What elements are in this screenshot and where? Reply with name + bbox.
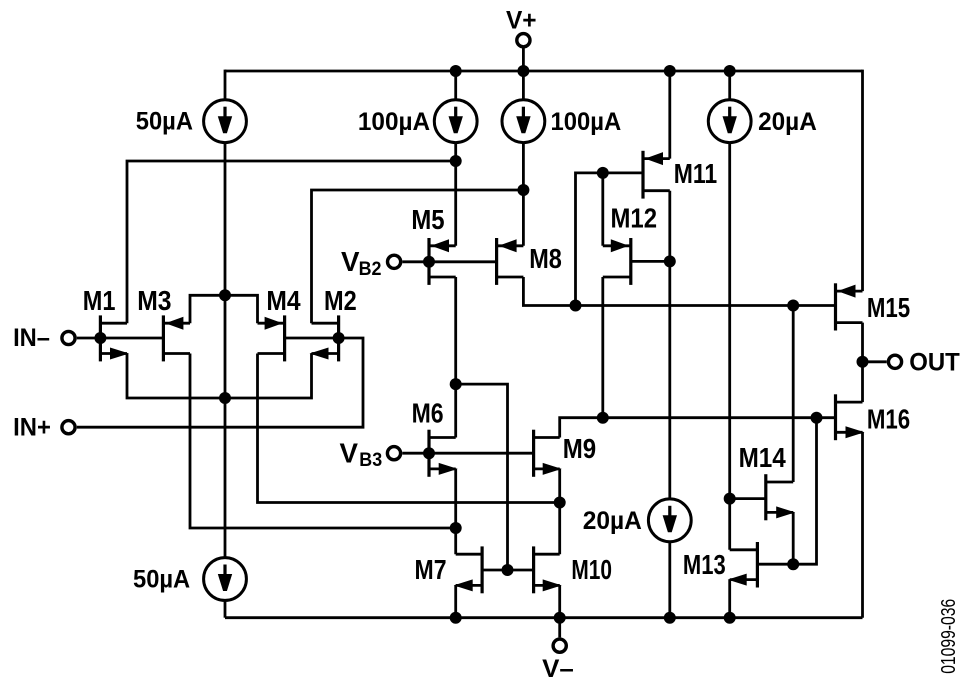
- node M9-source / M4-source junction: [554, 497, 566, 509]
- wire M11 gate net: [576, 173, 644, 306]
- wire M12 drain up to M11 gate: [601, 173, 604, 246]
- terminal V+: [517, 34, 530, 47]
- label VB2: [341, 246, 382, 280]
- wire M4 drain to tail node: [225, 295, 258, 323]
- node tail / source-rail junction: [219, 392, 231, 404]
- label IN+: [13, 413, 51, 441]
- svg-text:M5: M5: [411, 204, 444, 235]
- wire M12 source down to M9 drain net: [601, 277, 604, 418]
- svg-text:M2: M2: [324, 285, 357, 316]
- label 100uA (I3): [551, 108, 622, 136]
- node M1 gate junction: [94, 332, 106, 344]
- wire M15 source to OUT node: [861, 323, 864, 362]
- svg-text:M10: M10: [571, 554, 612, 585]
- wire V+ to 100uA I3 top: [522, 71, 525, 100]
- svg-text:M13: M13: [683, 549, 726, 580]
- wire I2 bottom to M5 drain: [454, 143, 457, 246]
- node M7/M10 gate junction: [502, 564, 514, 576]
- svg-text:V+: V+: [506, 6, 537, 34]
- wire M6 source to M7 drain: [454, 469, 457, 554]
- node M5 gate junction: [423, 256, 435, 268]
- wire M13 source to V- rail: [728, 580, 731, 618]
- wire rail to M11 drain: [668, 71, 671, 159]
- label M11: [674, 158, 717, 189]
- label M14: [739, 442, 787, 473]
- svg-text:V: V: [341, 246, 360, 277]
- transistor M8: [497, 238, 524, 285]
- wire M10 source to V- rail: [558, 585, 561, 617]
- node rail/20uA junction: [724, 65, 736, 77]
- wire rail right end to M15 drain: [861, 70, 864, 292]
- svg-text:M6: M6: [412, 398, 444, 429]
- wire tail down to 50uA I5: [224, 398, 227, 558]
- svg-text:OUT: OUT: [909, 349, 960, 377]
- wire M1/M2 source rail: [127, 354, 312, 399]
- node second-stage / M14-drain junction: [787, 300, 799, 312]
- node rail/100uA-1 junction: [450, 65, 462, 77]
- wire M14 source down to M13 gate: [792, 512, 795, 564]
- svg-text:IN+: IN+: [13, 413, 51, 441]
- wire rail to 100uA I2 top: [454, 71, 457, 100]
- transistor M5: [429, 238, 456, 285]
- svg-text:M11: M11: [674, 158, 717, 189]
- label 100uA (I2): [358, 108, 430, 136]
- label M1: [83, 285, 116, 316]
- node M6 gate junction: [423, 447, 435, 459]
- wire M7 source to V- rail: [454, 585, 457, 617]
- label M8: [529, 243, 562, 274]
- node second-stage / M11-gate-branch junction: [570, 300, 582, 312]
- wire OUT node to M16 drain: [861, 362, 864, 402]
- label M7: [415, 554, 447, 585]
- wire I3 bottom to M8 drain: [522, 143, 525, 246]
- wire M13 gate net: [757, 418, 816, 565]
- label M5: [411, 204, 444, 235]
- terminal OUT: [888, 355, 901, 368]
- svg-text:20µA: 20µA: [583, 507, 642, 535]
- current source I2 100uA: [434, 100, 477, 143]
- node V-rail / M10 / V- junction: [554, 612, 566, 624]
- node M2 gate junction: [333, 332, 345, 344]
- current source I3 100uA: [502, 100, 545, 143]
- wire M9 drain up to second stage: [560, 418, 836, 438]
- label M4: [266, 285, 301, 316]
- label M6: [412, 398, 444, 429]
- wire M5 source to M6 drain: [454, 277, 457, 438]
- transistor M9: [534, 430, 562, 477]
- label M13: [683, 549, 726, 580]
- wire M8 source to second-stage node: [523, 277, 835, 306]
- svg-text:M9: M9: [563, 433, 596, 464]
- terminal VB2: [388, 255, 401, 268]
- label VB3: [340, 437, 383, 471]
- label M2: [324, 285, 357, 316]
- wire M14 gate: [730, 497, 766, 500]
- transistor M15: [836, 283, 863, 330]
- transistor M10: [534, 546, 562, 593]
- svg-text:M3: M3: [137, 285, 171, 316]
- transistor M12: [603, 238, 631, 285]
- label 50uA (I1): [136, 108, 193, 136]
- node M11-gate / M12-drain junction: [597, 167, 609, 179]
- terminal V-: [553, 639, 566, 652]
- node M1-drain-net / I2 junction: [450, 155, 462, 167]
- wire M3 source down: [190, 354, 456, 529]
- node V-rail / M13 junction: [724, 612, 736, 624]
- wire V- terminal stub: [558, 618, 561, 638]
- node rail/M11 junction: [664, 65, 676, 77]
- transistor M2: [310, 315, 339, 361]
- svg-text:100µA: 100µA: [551, 108, 622, 136]
- node M13-gate / M14-source junction: [787, 558, 799, 570]
- wire M11-source net to 20uA I6: [668, 261, 671, 499]
- terminal VB3: [387, 447, 400, 460]
- svg-text:M16: M16: [867, 404, 910, 435]
- node 20uA / M14-gate junction: [724, 493, 736, 505]
- transistor M16: [836, 394, 865, 440]
- node OUT junction: [857, 356, 869, 368]
- wire I6 bottom to V- rail: [668, 542, 671, 618]
- wire M9 source to M10 drain: [558, 469, 561, 554]
- label V+: [506, 6, 537, 34]
- current source I6 20uA: [648, 499, 691, 542]
- svg-text:20µA: 20µA: [758, 108, 817, 136]
- wire tail node to source rail: [224, 295, 227, 398]
- current source I5 50uA: [204, 558, 247, 601]
- wire M11 source down: [668, 191, 671, 262]
- node M9-drain / M13-gate junction: [811, 412, 823, 424]
- svg-text:B3: B3: [359, 450, 382, 471]
- wire I1 bottom to tail node: [224, 143, 227, 296]
- wire M14 drain up to M15 gate net: [792, 306, 795, 483]
- svg-text:100µA: 100µA: [358, 108, 430, 136]
- wire V+ stub to rail: [522, 47, 525, 71]
- current source I4 20uA: [708, 100, 751, 143]
- transistor M1: [100, 315, 129, 361]
- svg-text:V: V: [340, 437, 359, 468]
- svg-text:M7: M7: [415, 554, 447, 585]
- node M11-source / M12-gate junction: [664, 255, 676, 267]
- label V-: [542, 655, 574, 683]
- svg-text:M12: M12: [611, 203, 658, 234]
- wire OUT node to terminal: [863, 360, 887, 363]
- svg-text:M14: M14: [739, 442, 787, 473]
- label M15: [867, 292, 910, 323]
- node M2-drain-net / I3 junction: [517, 184, 529, 196]
- node V-rail / M7 junction: [450, 612, 462, 624]
- svg-text:B2: B2: [359, 259, 382, 280]
- node M6-source / M3-source junction: [450, 522, 462, 534]
- label M9: [563, 433, 596, 464]
- svg-text:M1: M1: [83, 285, 116, 316]
- transistor M13: [728, 542, 758, 588]
- label 20uA (I4): [758, 108, 817, 136]
- wire I5 bottom to V- rail: [224, 600, 227, 617]
- svg-text:V–: V–: [542, 655, 574, 683]
- transistor M4: [258, 315, 285, 361]
- node M3/M4 drain junction: [219, 289, 231, 301]
- transistor M14: [766, 474, 795, 520]
- svg-text:IN–: IN–: [13, 324, 50, 352]
- wire M4 source down: [258, 354, 560, 503]
- label M16: [867, 404, 910, 435]
- wire VB2 to M5/M8 gates: [402, 260, 496, 263]
- label OUT: [909, 349, 960, 377]
- transistor M6: [429, 430, 458, 477]
- label IN-: [13, 324, 50, 352]
- wire M16 source to V- rail: [861, 432, 864, 617]
- transistor M7: [454, 546, 482, 593]
- terminal IN+: [62, 421, 75, 434]
- label M12: [611, 203, 658, 234]
- node rail/V+ junction: [517, 65, 529, 77]
- node M5-source / cascode-gate junction: [450, 378, 462, 390]
- label M3: [137, 285, 171, 316]
- svg-text:M15: M15: [867, 292, 910, 323]
- svg-text:50µA: 50µA: [136, 108, 193, 136]
- terminal IN-: [62, 331, 75, 344]
- wire VB3 to M6/M9 gates: [402, 452, 533, 455]
- wire rail down to 50uA source I1: [224, 70, 227, 100]
- wire IN- to M1/M3 gates: [77, 337, 164, 340]
- svg-text:M4: M4: [266, 285, 301, 316]
- wire cascode gate branch: [456, 384, 508, 570]
- node M9-drain / M12-source junction: [597, 412, 609, 424]
- label 50uA (I5): [133, 566, 190, 594]
- wire V- bottom rail: [225, 616, 863, 619]
- svg-text:01099-036: 01099-036: [938, 599, 960, 674]
- wire M3 drain to tail node: [190, 295, 225, 323]
- node V-rail / I6 junction: [664, 612, 676, 624]
- label 20uA (I6): [583, 507, 642, 535]
- svg-text:M8: M8: [529, 243, 562, 274]
- wire M1 drain net: [127, 161, 456, 323]
- label figure number 01099-036: [938, 599, 960, 674]
- transistor M11: [643, 151, 670, 199]
- wire M2 drain net: [312, 190, 524, 323]
- svg-text:50µA: 50µA: [133, 566, 190, 594]
- label M10: [571, 554, 612, 585]
- transistor M3: [163, 315, 190, 361]
- wire IN+ to M2/M4 gates: [77, 338, 363, 427]
- wire M12 gate to M11 source net: [631, 260, 670, 263]
- wire M7/M10 gate tie: [482, 569, 533, 572]
- current source I1 50uA: [204, 100, 247, 143]
- wire rail to 20uA I4 top: [728, 71, 731, 100]
- wire I4 bottom down: [728, 143, 731, 550]
- wire V+ top rail: [225, 70, 863, 73]
